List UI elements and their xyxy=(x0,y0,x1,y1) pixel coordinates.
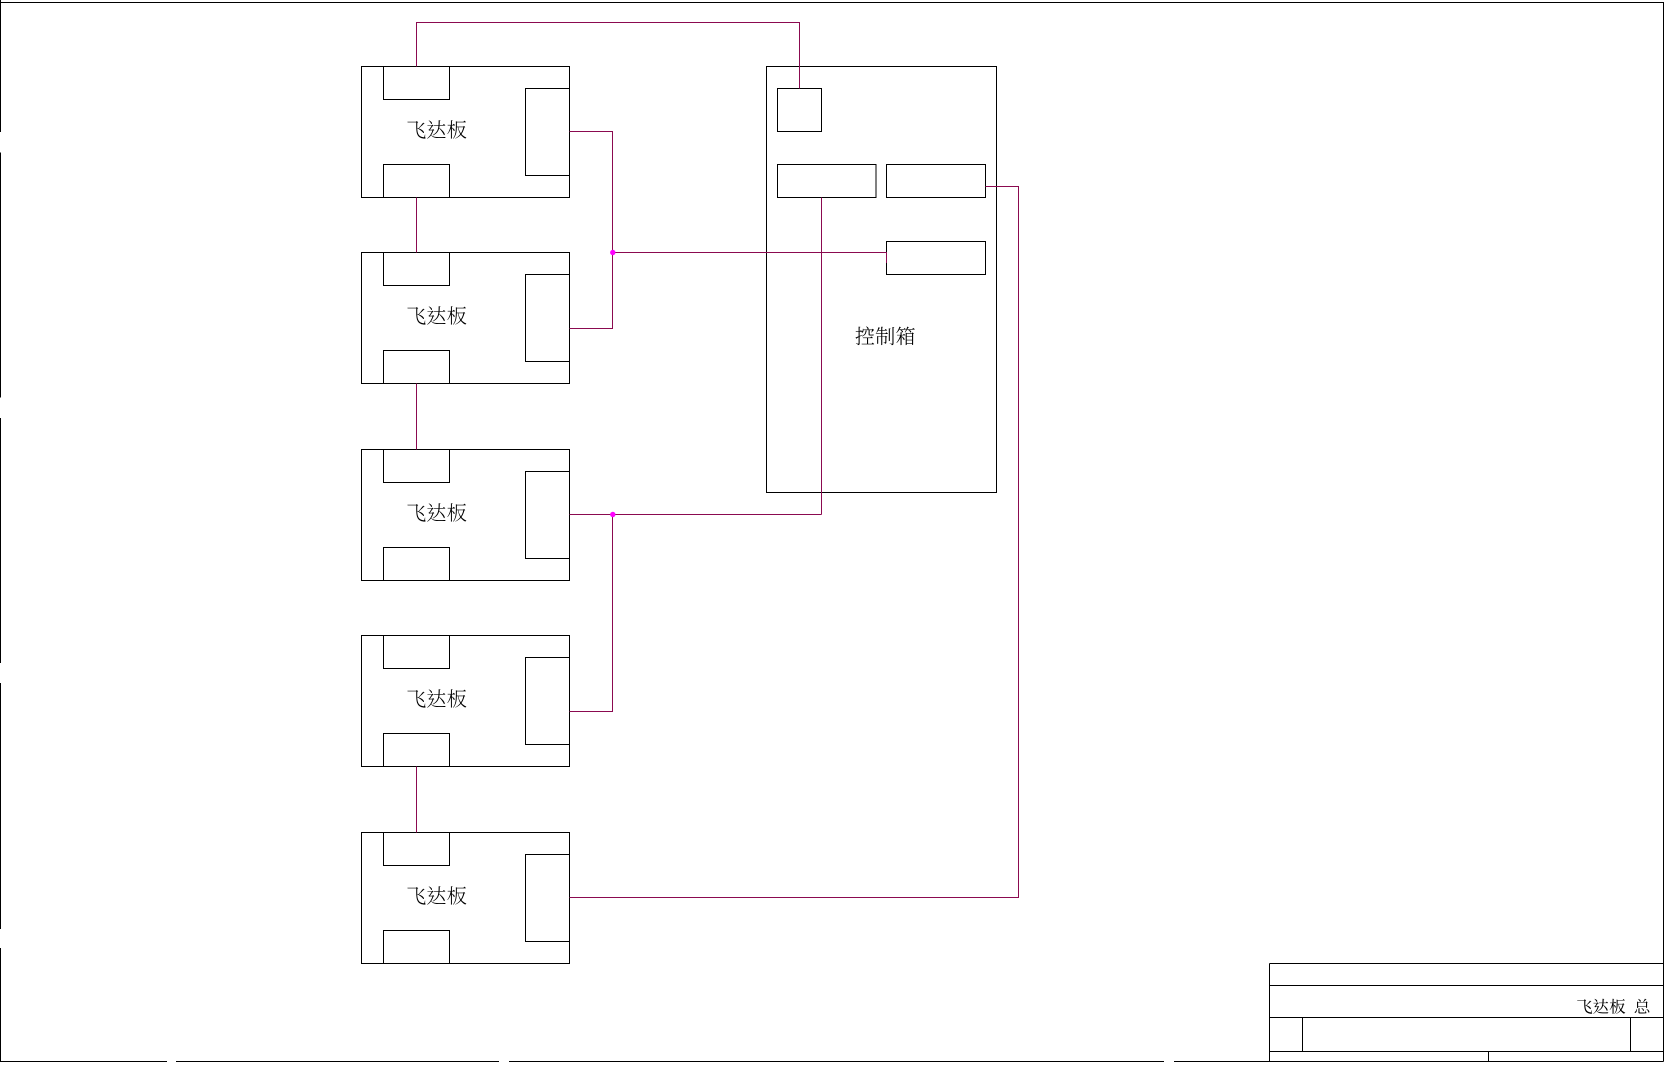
wire: FB2 bottom connector to FB3 top connector xyxy=(416,384,418,450)
FB3 bottom connector xyxy=(384,548,450,581)
feeder board FB3 xyxy=(362,450,570,581)
FB4 bottom connector xyxy=(384,734,450,767)
wire: FB4 bottom connector to FB5 top connector xyxy=(416,767,418,833)
FB2 label 飞达板 xyxy=(407,306,466,324)
control box power connector (top-left square) xyxy=(778,89,822,132)
FB2 bottom connector xyxy=(384,351,450,384)
junction node J2 xyxy=(610,512,615,517)
FB1 top connector xyxy=(384,67,450,100)
FB3 top connector xyxy=(384,450,450,483)
wire: FB1 top connector to control box power connector xyxy=(417,23,800,89)
wire: FB1 bottom connector to FB2 top connector xyxy=(416,198,418,253)
wire: bus junction to FB4 right connector xyxy=(570,515,613,712)
FB2 top connector xyxy=(384,253,450,286)
wire: FB1 right connector bus down to FB2 right connector xyxy=(570,132,613,329)
wire: control box connector A drop line xyxy=(821,198,823,515)
FB5 bottom connector xyxy=(384,931,450,964)
wire: FB3 right connector bus xyxy=(570,514,822,516)
control box connector C (right, row 2) xyxy=(887,242,986,275)
FB2 right connector xyxy=(526,275,570,362)
FB5 top connector xyxy=(384,833,450,866)
FB1 label 飞达板 xyxy=(407,120,466,138)
FB4 label 飞达板 xyxy=(407,689,466,707)
FB5 right connector xyxy=(526,855,570,942)
control box label 控制箱 xyxy=(856,326,915,345)
FB5 label 飞达板 xyxy=(407,886,466,904)
junction node J1 xyxy=(610,250,615,255)
wire: bus junction to control box connector C xyxy=(613,253,887,264)
wire: control box connector B to FB5 right connector xyxy=(570,187,1019,898)
FB3 right connector xyxy=(526,472,570,559)
control box xyxy=(767,67,997,493)
control box connector B (right, row 1) xyxy=(887,165,986,198)
FB4 top connector xyxy=(384,636,450,669)
feeder board FB5 xyxy=(362,833,570,964)
feeder board FB1 xyxy=(362,67,570,198)
FB1 bottom connector xyxy=(384,165,450,198)
feeder board FB4 xyxy=(362,636,570,767)
control box connector A (left) xyxy=(778,165,877,198)
FB4 right connector xyxy=(526,658,570,745)
feeder board FB2 xyxy=(362,253,570,384)
FB3 label 飞达板 xyxy=(407,503,466,521)
FB1 right connector xyxy=(526,89,570,176)
title block label 飞达板 总 xyxy=(1577,999,1649,1014)
